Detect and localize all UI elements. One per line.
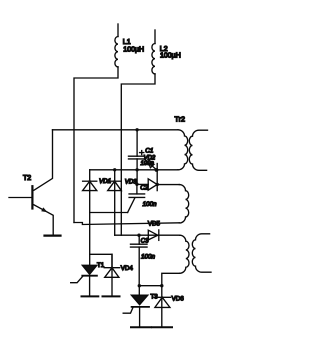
wire between bottom nodes	[139, 285, 162, 287]
node rail A / C1	[135, 128, 138, 131]
node A	[135, 183, 138, 186]
wire rail B to node A	[136, 170, 138, 184]
node VD6 top	[160, 284, 163, 287]
capacitor C2	[136, 184, 138, 194]
transistor T2	[31, 186, 33, 208]
wire L1 bottom to left and down	[74, 67, 118, 223]
node B	[156, 183, 159, 186]
svg-text:100µH: 100µH	[123, 47, 144, 54]
diode VD1	[89, 170, 91, 265]
diode VD6	[161, 286, 163, 327]
diode VD5	[148, 230, 158, 240]
wire VD3 bottom to VD5 line	[115, 234, 180, 236]
svg-text:100n: 100n	[141, 254, 156, 261]
svg-text:T2: T2	[23, 175, 31, 182]
svg-text:VD6: VD6	[172, 295, 185, 302]
Tr2 secondary top winding	[189, 130, 207, 170]
wire L2 bottom to left and down	[121, 74, 155, 235]
node rail B left	[113, 168, 116, 171]
wire node B to middle winding	[157, 184, 179, 186]
wire rail A top	[53, 129, 179, 131]
diode VD3	[114, 170, 116, 235]
capacitor C1	[136, 130, 138, 156]
node C3 bottom	[138, 284, 141, 287]
svg-text:C3: C3	[141, 238, 150, 245]
svg-text:VD5: VD5	[148, 220, 161, 227]
wire T2 collector riser	[34, 130, 53, 190]
inductor L1	[117, 24, 119, 37]
Tr2 bottom-left winding	[180, 235, 189, 273]
svg-text:C1: C1	[145, 147, 153, 154]
svg-text:C2: C2	[140, 184, 149, 191]
wire long rail L1 to middle winding	[74, 223, 179, 225]
inductor L2	[154, 30, 156, 44]
node rail B mid	[135, 168, 138, 171]
svg-text:VD4: VD4	[121, 265, 134, 272]
wire bottom-left winding to node	[162, 273, 180, 285]
diode VD2 diagonal	[144, 159, 156, 170]
svg-text:100µH: 100µH	[160, 53, 181, 60]
node rail B right	[155, 168, 159, 172]
capacitor C3	[138, 235, 140, 244]
node C3 top	[137, 234, 140, 237]
svg-text:Tr2: Tr2	[175, 115, 186, 124]
Tr2 bottom-right winding	[192, 234, 211, 272]
svg-text:100n: 100n	[143, 201, 158, 208]
wire horizontal VD1 to C2 diagonal	[90, 212, 128, 214]
diode VDx horizontal (node A to node B)	[137, 183, 148, 185]
thyristor T1	[82, 265, 97, 274]
Tr2 primary winding	[178, 130, 188, 170]
wire rail B	[90, 169, 178, 171]
svg-text:L1: L1	[123, 39, 131, 46]
Tr2 middle winding	[179, 185, 188, 223]
thyristor T3	[138, 286, 140, 296]
wire VD1 chain corner to VD4	[90, 254, 112, 267]
diode VD4	[111, 254, 113, 296]
